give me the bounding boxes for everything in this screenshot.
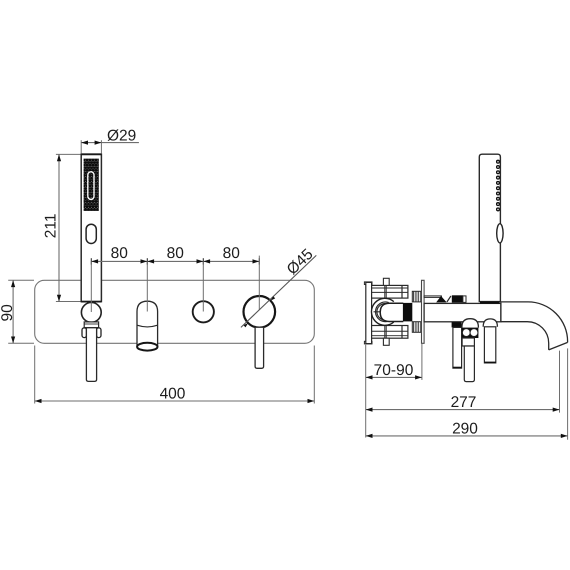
small knob (front) [193,301,214,322]
dimension 400 [35,346,315,404]
hand shower body (front) [81,154,101,301]
hand shower bottom edge [81,301,101,303]
rough-in: top rail [372,285,408,298]
svg-text:80: 80 [111,245,129,262]
big knob Ø45 (front) [243,296,275,328]
dimension 90 [0,280,34,343]
neck strip between plate and bracket [424,296,441,298]
side handle C body [484,327,495,363]
side handle B upper block [462,338,474,346]
wall plate (400x90 rounded rectangle) [35,280,315,343]
spray face light capsule [88,172,94,200]
dimension chain 80 / 80 / 80 [91,245,259,265]
holder collar [84,322,98,328]
svg-text:80: 80 [223,245,241,262]
spout (front, capsule) [137,301,158,346]
wall plate (side, thin) [422,280,425,343]
svg-text:80: 80 [167,245,185,262]
side handle B dome [462,319,479,328]
svg-text:290: 290 [452,420,478,437]
rough-in: outer C ring [371,298,393,325]
side handle B lower stick [464,346,474,382]
rough-in: hatched flange bottom [412,322,421,333]
spout (side) inner edge [501,322,549,350]
rough-in: inner crescent arcs [376,302,389,322]
spout seam arc [137,325,158,327]
bracket slash [447,296,451,302]
extension line to big knob centre [258,256,260,310]
joint between body and spout [500,302,502,322]
side handle A black cap [452,322,462,327]
hand shower body (side) [479,154,500,301]
nozzle dot column (side) [497,160,500,211]
dimension 70-90 [366,344,422,438]
extension line to hand shower centre [90,261,92,312]
side handle A body [453,327,462,368]
dimension 290 [366,348,568,439]
svg-text:Ø29: Ø29 [107,128,136,145]
hand shower spray face dot panel [84,159,99,211]
holder clamp ear [463,296,466,303]
rough-in: hatched flange top [412,291,421,302]
bracket black flag [436,296,447,302]
svg-text:277: 277 [451,394,477,411]
rough-in: top tab [383,278,389,285]
holder ball joint [81,303,101,323]
hand shower oval button (front) [86,224,96,243]
spout outlet ellipse [137,343,157,351]
svg-text:90: 90 [0,304,16,322]
extension line to spout centre [146,261,148,311]
lever handle below big knob [255,327,264,368]
rough-in: black cartridge block [403,303,412,322]
clamp band under shower tube [480,302,500,304]
holder clamp black block [452,295,463,302]
dimension Ø45 leader [241,246,317,328]
trim body tube (side) [424,303,501,321]
dimension 277 [366,351,560,413]
spout (side) outer edge [501,302,568,343]
rough-in: centre tick across crescent [374,311,381,313]
rough-in: cartridge slot [380,303,403,321]
holder left ear [82,328,87,338]
dimension 211 [43,154,81,301]
rough-in: left anchor bar [364,282,372,285]
rough-in: bottom rail [372,326,408,339]
extension line to small knob centre [202,261,204,311]
rough-in: bottom tab [383,338,389,345]
svg-text:70-90: 70-90 [374,362,414,379]
side handle B black band with rollers [462,328,479,338]
svg-text:400: 400 [160,386,186,403]
oval button (side) [497,224,503,243]
dimension Ø29 [81,128,139,154]
spout tip plane [549,342,568,350]
svg-text:211: 211 [43,213,60,238]
hand shower handle stick below holder [86,328,96,382]
side handle C dome [483,319,497,327]
holder right ear [97,328,102,338]
